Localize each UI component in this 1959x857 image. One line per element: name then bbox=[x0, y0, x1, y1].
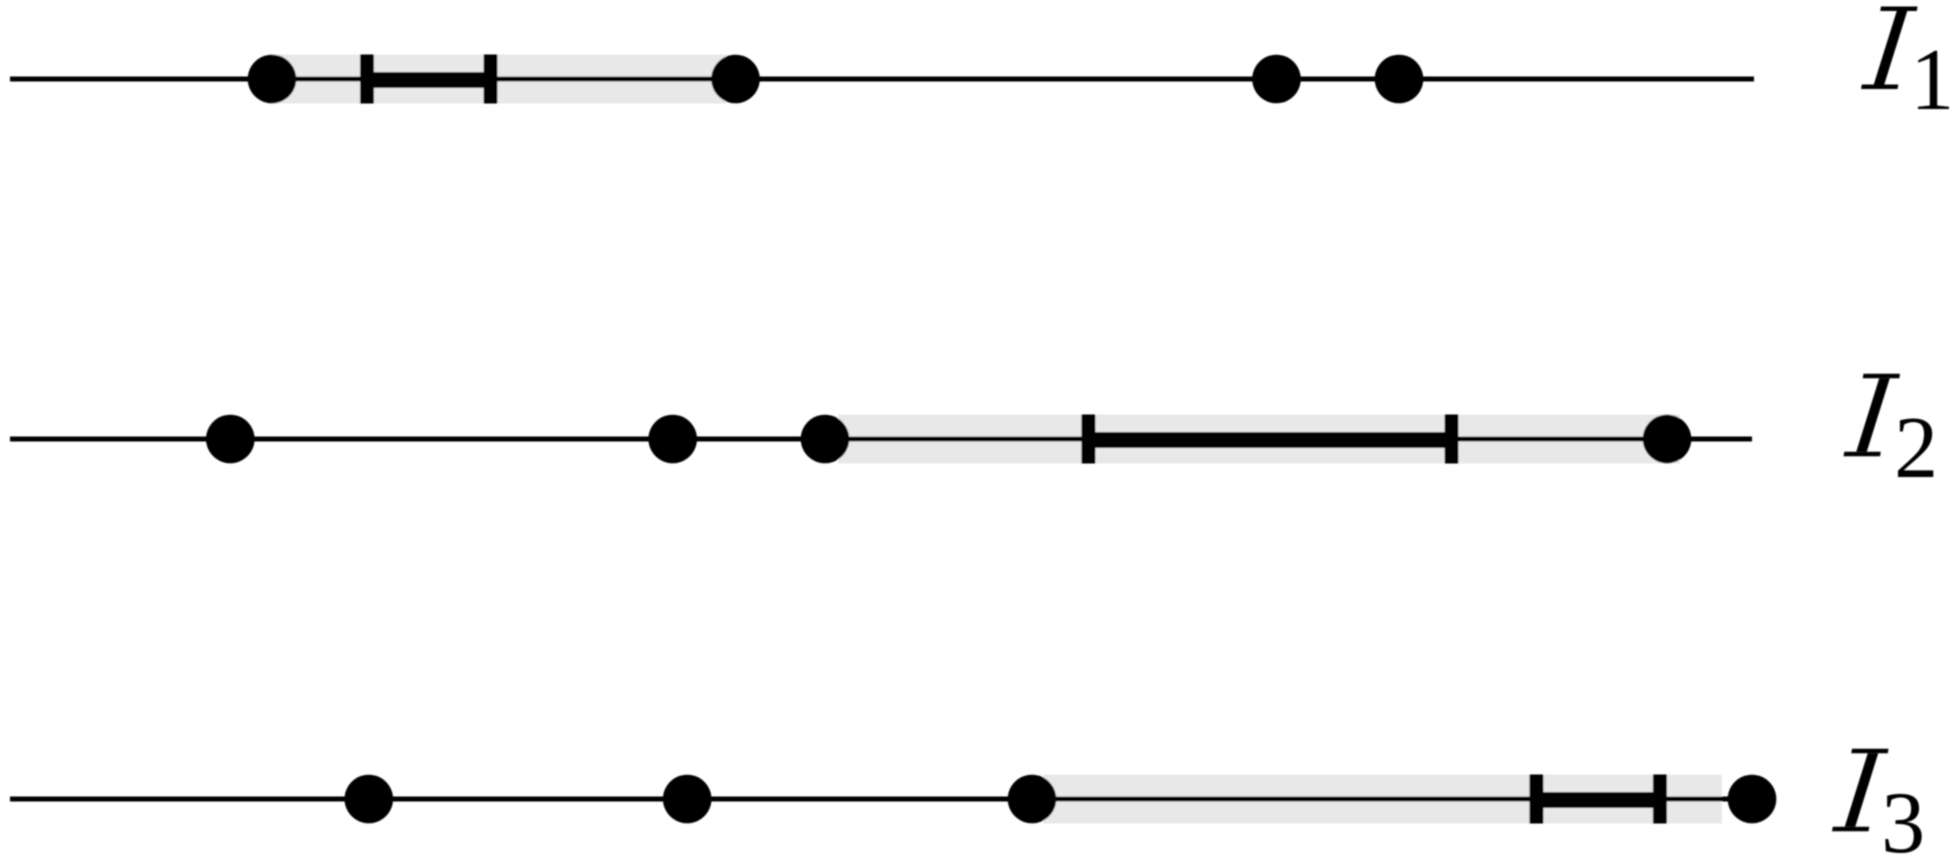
svg-text:1: 1 bbox=[1910, 32, 1954, 129]
svg-text:3: 3 bbox=[1881, 775, 1925, 857]
svg-text:2: 2 bbox=[1894, 400, 1938, 497]
